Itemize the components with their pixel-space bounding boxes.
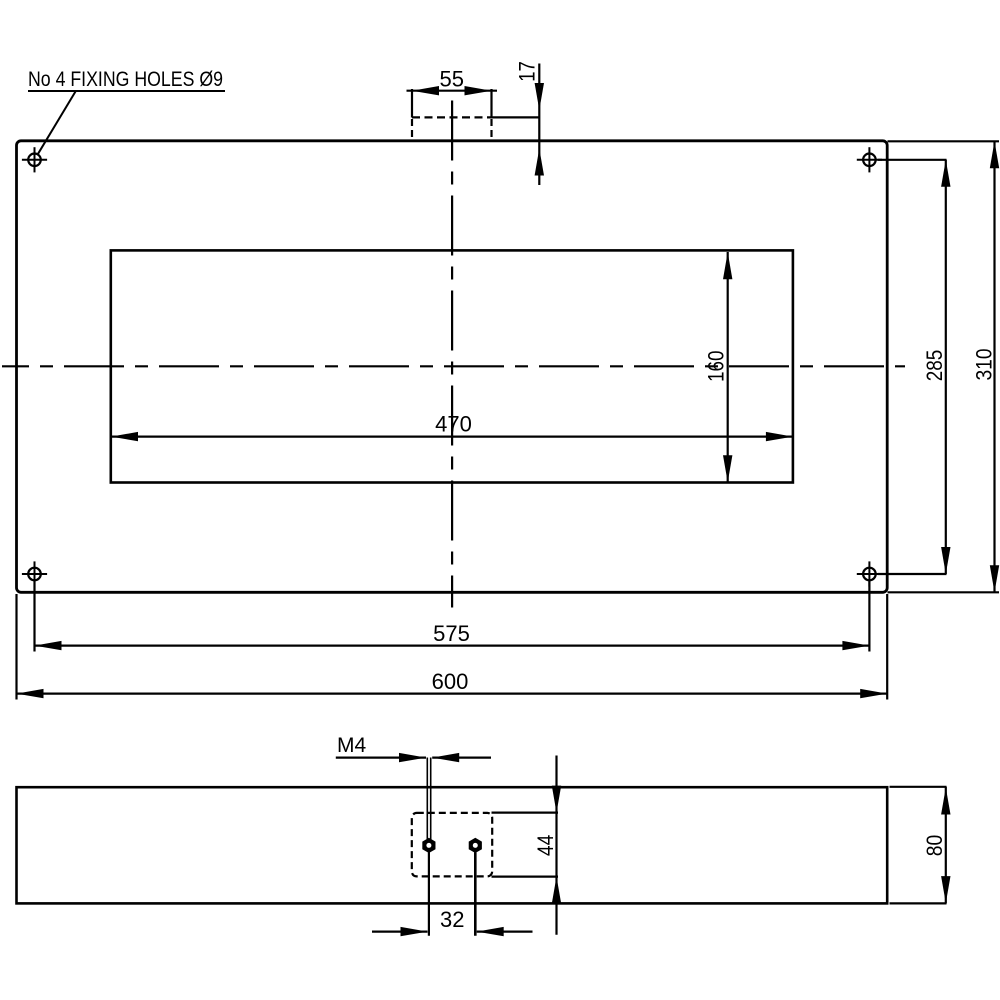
M4 stud shank (left) bbox=[427, 758, 430, 840]
svg-text:575: 575 bbox=[433, 621, 470, 646]
fixing hole bottom-left bbox=[22, 561, 47, 586]
dimension 32 bbox=[372, 907, 533, 936]
dimension 80 bbox=[890, 787, 951, 904]
svg-text:17: 17 bbox=[515, 61, 540, 82]
dimension 575 bbox=[35, 581, 870, 652]
dimension 55 bbox=[407, 67, 498, 118]
fixing hole top-left bbox=[22, 147, 47, 172]
hidden connector block (dashed, side view) bbox=[412, 813, 492, 877]
side view outline bbox=[17, 787, 888, 903]
dimension M4 bbox=[336, 734, 491, 762]
hex nut right bbox=[469, 838, 482, 853]
dimension 17 bbox=[492, 61, 545, 185]
dimension 160 bbox=[704, 252, 733, 482]
dimension 310 bbox=[888, 141, 1000, 592]
label: No 4 FIXING HOLES dia 9 bbox=[28, 68, 225, 91]
stud extension line left bbox=[428, 852, 430, 935]
leader line to top-left hole bbox=[38, 92, 76, 155]
dimension 470 bbox=[111, 412, 793, 442]
hidden tab (dashed) at top edge bbox=[412, 117, 492, 139]
svg-text:No 4 FIXING HOLES Ø9: No 4 FIXING HOLES Ø9 bbox=[28, 68, 223, 91]
svg-text:55: 55 bbox=[440, 67, 464, 92]
stud extension line right bbox=[474, 852, 477, 935]
dimension 600 bbox=[17, 594, 888, 700]
dimension 44 bbox=[492, 756, 562, 935]
plate outline (top view) bbox=[17, 141, 888, 593]
svg-text:310: 310 bbox=[972, 349, 997, 381]
svg-text:44: 44 bbox=[533, 835, 558, 857]
fixing hole bottom-right bbox=[857, 561, 882, 586]
svg-text:32: 32 bbox=[440, 907, 464, 932]
svg-text:160: 160 bbox=[704, 351, 729, 383]
svg-text:470: 470 bbox=[435, 412, 472, 437]
cutout rectangle (inner opening) bbox=[111, 250, 793, 482]
horizontal centerline bbox=[2, 365, 905, 367]
svg-text:600: 600 bbox=[432, 669, 469, 694]
svg-text:285: 285 bbox=[922, 350, 947, 382]
vertical centerline bbox=[451, 101, 453, 608]
svg-text:80: 80 bbox=[922, 835, 947, 857]
fixing hole top-right bbox=[857, 147, 882, 172]
dimension 285 bbox=[878, 160, 951, 574]
svg-text:M4: M4 bbox=[337, 734, 366, 757]
hex nut left bbox=[422, 838, 435, 853]
